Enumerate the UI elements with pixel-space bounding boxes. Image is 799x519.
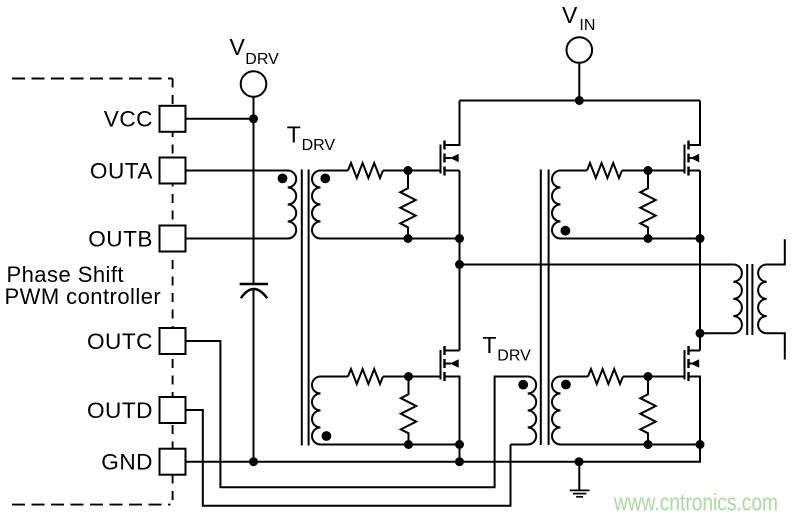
- node GND/ground-symbol junction: [575, 457, 584, 466]
- svg-text:GND: GND: [101, 450, 153, 475]
- pin GND box: [160, 449, 186, 475]
- node TDRV2 bottom secondary phase dot: [561, 380, 571, 390]
- svg-text:DRV: DRV: [302, 137, 336, 154]
- node TDRV2 primary phase dot: [518, 380, 528, 390]
- label TDRV2: [482, 332, 531, 365]
- wire VCC to VDRV node: [186, 118, 254, 120]
- resistor gate series (bottom-right): [588, 369, 623, 384]
- node top-left source rail junction: [455, 234, 464, 243]
- svg-text:T: T: [482, 332, 496, 358]
- node bottom-left gate junction: [404, 372, 413, 381]
- node VIN rail junction: [575, 96, 584, 105]
- node bottom-right source rail junction: [696, 440, 705, 449]
- node bottom-right source-resistor junction: [644, 440, 653, 449]
- wire VDRV vertical to coupling cap: [253, 97, 255, 283]
- node GND/cap junction: [249, 457, 258, 466]
- transformer TDRV1 secondary winding (bottom) + bottom wire to node: [312, 377, 460, 445]
- transformer T1 main primary winding: [700, 265, 742, 334]
- transformer TDRV2 secondary winding (bottom) + bottom wire to node: [552, 377, 700, 445]
- wire right bridge leg (Q3 source to Q4 drain): [699, 171, 701, 351]
- node top-right source rail junction: [696, 234, 705, 243]
- resistor gate-source (top-right): [640, 171, 655, 239]
- wire left bridge leg (Q1 source to Q2 drain): [459, 171, 461, 351]
- pin OUTB box: [160, 226, 186, 252]
- node top-left source-resistor junction: [404, 234, 413, 243]
- svg-text:PWM controller: PWM controller: [5, 284, 162, 309]
- label Phase Shift PWM controller: [5, 262, 162, 309]
- transformer T1 main secondary winding with stubs: [758, 239, 785, 359]
- node phase A junction: [455, 260, 464, 269]
- transistor Q1 (upper-left MOSFET): [441, 101, 460, 176]
- transformer TDRV2 core: [541, 170, 549, 446]
- pin OUTC box: [160, 328, 186, 354]
- resistor gate series (bottom-left): [348, 369, 383, 384]
- svg-text:IN: IN: [579, 17, 595, 34]
- node top-left gate junction: [404, 166, 413, 175]
- node TDRV1 secondary top phase dot: [320, 174, 330, 184]
- wire top VIN rail: [460, 100, 701, 102]
- transistor Q4 (lower-right MOSFET): [685, 346, 701, 445]
- svg-text:VCC: VCC: [104, 107, 153, 132]
- node Q2 source to GND rail junction: [455, 457, 464, 466]
- wire VIN to top rail: [578, 63, 580, 101]
- transformer TDRV1 core: [302, 170, 309, 446]
- transformer TDRV2 primary winding: [511, 377, 537, 445]
- node TDRV1 primary phase dot: [278, 174, 288, 184]
- resistor gate series (top-right): [587, 163, 622, 178]
- resistor gate series (top-left): [348, 163, 383, 178]
- transistor Q3 (upper-right MOSFET): [685, 101, 701, 176]
- node top-right source-resistor junction: [644, 234, 653, 243]
- transistor Q2 (lower-left MOSFET): [441, 346, 460, 462]
- ground symbol: [570, 462, 590, 497]
- svg-text:OUTC: OUTC: [87, 329, 153, 354]
- supply VIN circle: [567, 37, 593, 63]
- transformer TDRV2 secondary winding (top) + bottom wire to node: [552, 171, 700, 239]
- svg-text:OUTA: OUTA: [90, 158, 154, 183]
- pin VCC box: [160, 106, 186, 132]
- pin OUTD box: [160, 397, 186, 423]
- wire OUTC to TDRV2 primary top: [186, 341, 528, 487]
- node bottom-right gate junction: [644, 372, 653, 381]
- svg-text:V: V: [562, 2, 578, 28]
- node bottom-left source-resistor junction: [404, 440, 413, 449]
- supply VIN label: [562, 2, 595, 34]
- wire phase node A to main transformer primary: [460, 264, 734, 266]
- PWM controller dashed box: [12, 79, 173, 506]
- wire resistor to Q2 gate: [383, 376, 441, 378]
- wire GND rail: [186, 445, 701, 462]
- svg-text:T: T: [287, 122, 301, 148]
- label TDRV1: [287, 122, 336, 154]
- node TDRV2 top secondary phase dot: [561, 226, 571, 236]
- wire resistor to Q3 gate: [622, 170, 685, 172]
- svg-text:www.cntronics.com: www.cntronics.com: [613, 490, 778, 517]
- wire resistor to Q4 gate: [623, 376, 685, 378]
- node bottom-left source rail junction: [455, 440, 464, 449]
- resistor gate-source (top-left): [400, 171, 415, 239]
- wire cap bottom to GND rail: [253, 289, 255, 461]
- node VDRV/VCC junction: [249, 114, 258, 123]
- svg-text:OUTD: OUTD: [87, 398, 153, 423]
- svg-text:DRV: DRV: [245, 51, 279, 68]
- node phase B junction (primary bottom): [696, 329, 705, 338]
- capacitor coupling C1: [240, 284, 268, 298]
- transformer TDRV1 secondary winding (top) + bottom wire to node: [312, 171, 460, 239]
- wire resistor to Q1 gate: [383, 170, 441, 172]
- wire OUTD to TDRV2 primary bottom: [186, 410, 511, 506]
- supply VDRV circle: [241, 71, 267, 97]
- node TDRV1 bottom secondary phase dot: [322, 431, 332, 441]
- pin OUTA box: [160, 158, 186, 184]
- resistor gate-source (bottom-right): [640, 377, 655, 445]
- transformer T1 main core: [747, 264, 752, 335]
- svg-text:DRV: DRV: [497, 348, 531, 365]
- svg-text:V: V: [230, 34, 246, 60]
- resistor gate-source (bottom-left): [401, 377, 416, 445]
- supply VDRV label: [230, 34, 280, 68]
- node top-right gate junction: [644, 166, 653, 175]
- wire OUTA + transformer TDRV1 primary winding + wire OUTB: [186, 171, 297, 239]
- svg-text:OUTB: OUTB: [88, 226, 153, 251]
